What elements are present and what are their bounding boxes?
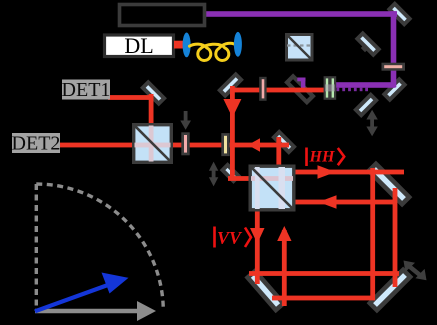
red beam: DET1 horizontal <box>108 95 153 100</box>
pump beam: reflected stub at dichroic (horizontal) <box>297 78 305 82</box>
red beam: DET2 to detection PBS and on to Sagnac output <box>60 143 289 148</box>
arrowhead down on VV beam <box>250 228 265 244</box>
ket label |HH> <box>305 148 344 167</box>
polarization rotation diagram: vertical dashed axis <box>35 184 38 311</box>
red beam: Sagnac entrance horizontal <box>228 176 252 181</box>
arrowhead left on return beam <box>319 195 337 208</box>
mirror M3 (Sagnac entrance mirror) <box>223 165 239 181</box>
svg-text:HH: HH <box>309 149 335 166</box>
SPDC crystal (right half) <box>331 77 336 98</box>
half-wave plate HWP2 on SPDC beam (pink) <box>259 77 266 101</box>
red emitter stub <box>174 41 184 49</box>
mirror M7 (pump fold mirror) <box>384 79 404 99</box>
pump beam: horizontal from laser <box>205 11 397 17</box>
arrowhead right on HH beam <box>318 165 336 178</box>
ket label |VV> <box>213 227 251 249</box>
top beamsplitter cube BS <box>287 35 313 61</box>
mirror M1 (turns DET1 beam) <box>143 82 164 103</box>
mirror M6 (spare mirror upper right) <box>357 33 378 54</box>
half-wave plate HWP1 (pink) <box>181 132 189 155</box>
svg-text:VV: VV <box>217 228 243 248</box>
translation double arrow at Sagnac mirror M10 <box>404 261 427 281</box>
pump wave plate (salmon, horizontal) <box>382 63 406 71</box>
arrowhead up on return vertical beam <box>277 226 291 241</box>
mirror M5 (pump steering, top right) <box>389 4 409 24</box>
optical fiber coil <box>190 43 235 60</box>
red beam: vertical from M2 to Sagnac entrance <box>230 86 235 177</box>
arrowhead left on detection beam <box>248 138 260 152</box>
red beam: VV vertical down from PBS <box>255 208 260 284</box>
red beam: return loop horizontal <box>294 200 397 205</box>
detection beamsplitter cube <box>134 125 172 163</box>
mirror M8 (translatable pick-off mirror) <box>356 95 376 115</box>
rotation arrow above HWP1 <box>180 111 191 130</box>
pump beam: horizontal into crystal <box>334 82 396 88</box>
pump beam ticks below beam <box>337 88 369 92</box>
translation double arrow below pick-off mirror M8 <box>366 110 377 136</box>
red beam: upward vertical into PBS <box>282 230 287 306</box>
DET1 detector box <box>62 80 110 100</box>
red beam: inner right vertical <box>370 168 375 300</box>
quarter-wave plate QWP1 (yellow) <box>221 133 229 156</box>
polarization rotation diagram: dashed quarter arc <box>36 184 163 311</box>
fiber coupling lens L1 <box>183 33 191 58</box>
svg-text:DET2: DET2 <box>12 133 61 155</box>
red beam: outer bottom horizontal <box>272 296 375 301</box>
mirror M6 mount notch <box>361 44 369 52</box>
laser head box <box>120 5 205 26</box>
mirror M11 (Sagnac bottom-left mirror) <box>248 271 284 310</box>
polarization rotation diagram: blue state vector arrow <box>35 273 129 312</box>
SPDC crystal (left half) <box>325 77 330 98</box>
beam crossing tint inside crystal <box>325 84 335 91</box>
mirror M4 (Sagnac output mirror) <box>274 132 294 152</box>
mirror M9 (Sagnac top-right mirror) <box>369 164 409 204</box>
red beam: inner bottom horizontal <box>249 271 399 276</box>
red beam: Sagnac output vertical <box>276 137 281 175</box>
DET2 detector box <box>12 133 60 153</box>
pump beam: vertical down right side <box>391 11 397 87</box>
Sagnac PBS cube <box>250 166 294 210</box>
translation double arrow below QWP1 <box>209 162 218 187</box>
mirror M2 (turns SPDC red beam down) <box>220 74 241 95</box>
polarization rotation diagram: horizontal gray arrow <box>35 301 156 321</box>
mirror M10 (Sagnac bottom-right translatable mirror) <box>370 270 410 310</box>
fiber output lens L2 <box>234 32 242 57</box>
red beam: SPDC output horizontal <box>230 88 336 93</box>
red beam: vertical from M1 into detection PBS <box>149 94 154 145</box>
dichroic mirror DM <box>287 76 313 102</box>
red beam: HH loop top horizontal <box>294 170 404 175</box>
svg-text:DET1: DET1 <box>62 79 111 101</box>
DL diode laser box <box>105 35 174 57</box>
svg-text:DL: DL <box>124 33 153 58</box>
arrowhead down on SPDC vertical beam <box>223 99 241 118</box>
pump beam: reflected stub at dichroic (vertical) <box>301 78 305 89</box>
red beam: outer right vertical <box>393 188 398 287</box>
